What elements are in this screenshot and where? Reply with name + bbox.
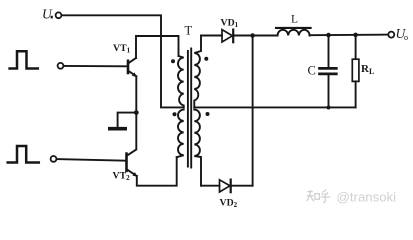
- resistor RL: [352, 35, 359, 108]
- watermark zhihu: [307, 190, 330, 203]
- node base terminal 1: [58, 63, 64, 69]
- wire VT1 emitter to common: [135, 76, 137, 149]
- phase dot primary bottom: [173, 112, 177, 116]
- junction dot RL top: [353, 33, 358, 38]
- wire rectifier link VD1-VD2: [252, 36, 254, 186]
- wire output ground rail: [194, 106, 355, 108]
- phase dot secondary top: [204, 57, 208, 61]
- wire VD1 cathode to L: [233, 35, 277, 37]
- diode VD1: [222, 30, 233, 43]
- wire base 2: [57, 159, 126, 161]
- ground: [110, 127, 125, 131]
- inductor L: [276, 28, 311, 36]
- svg-text:T: T: [185, 24, 193, 38]
- transistor VT1: [128, 58, 137, 77]
- wire VD2 cathode: [231, 185, 253, 187]
- junction dot common node: [134, 110, 139, 115]
- svg-text:o: o: [404, 33, 408, 42]
- svg-text:C: C: [308, 63, 316, 77]
- transformer T primary winding: [178, 56, 184, 107]
- phase dot secondary bottom: [206, 112, 210, 116]
- transformer T secondary winding: [194, 36, 201, 108]
- transformer core: [187, 51, 189, 167]
- capacitor C: [320, 35, 337, 107]
- svg-text:@transoki: @transoki: [337, 190, 397, 205]
- pulse symbol input 2: [8, 146, 39, 163]
- svg-text:L: L: [291, 14, 298, 26]
- junction dot rectifier node: [250, 33, 255, 38]
- wire VT2 emitter to primary bottom: [137, 157, 177, 186]
- wire VT1 collector: [136, 36, 179, 58]
- node Ui terminal: [56, 12, 62, 18]
- wire base 1: [64, 65, 127, 67]
- node base terminal 2: [51, 156, 57, 162]
- pulse symbol input 1: [10, 51, 38, 68]
- svg-text:U: U: [42, 7, 53, 22]
- node Uo terminal: [388, 32, 394, 38]
- transistor VT2: [127, 150, 138, 177]
- wire L to output: [310, 34, 389, 37]
- wire secondary top to VD1: [201, 35, 222, 37]
- junction dot C top: [326, 33, 331, 38]
- diode VD2: [220, 180, 231, 193]
- junction dot C bottom: [327, 106, 331, 110]
- phase dot primary top: [171, 59, 175, 63]
- wire secondary bottom to VD2: [201, 185, 220, 187]
- wire ground branch: [118, 113, 137, 128]
- wire Ui feed top: [62, 15, 184, 107]
